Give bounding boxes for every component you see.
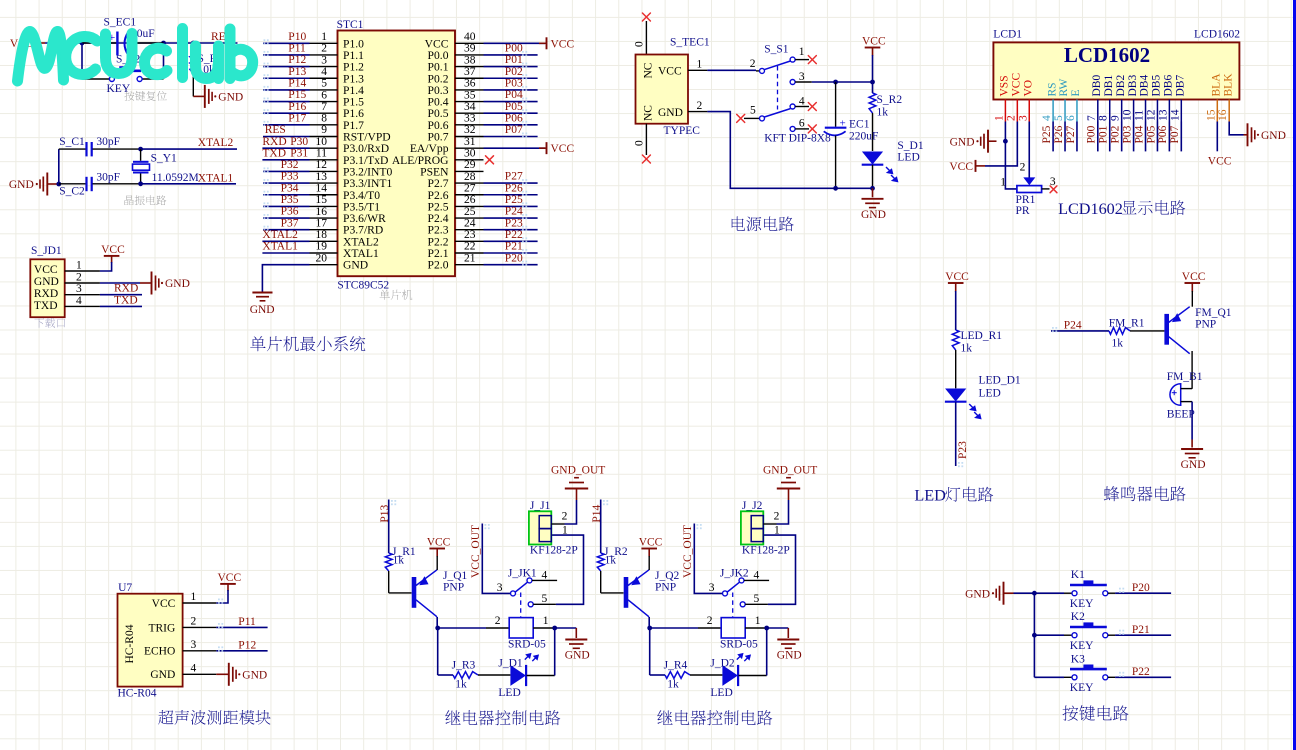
wire XTAL1 (138, 181, 236, 186)
svg-text:BLK: BLK (1222, 73, 1234, 97)
svg-text:36: 36 (464, 78, 476, 90)
net label P02 (LCD) (1109, 125, 1121, 143)
svg-text:VO: VO (1022, 80, 1034, 97)
wire LCD pin16 BLK to GND (1229, 122, 1243, 135)
crystal S_Y1 11.0592M (133, 149, 199, 184)
svg-text:FM_B1: FM_B1 (1167, 371, 1203, 383)
svg-text:LED: LED (897, 152, 919, 164)
wire LCD pin3 VO to potentiometer (1028, 122, 1030, 178)
svg-text:10: 10 (1122, 109, 1134, 121)
svg-text:P02: P02 (1109, 125, 1121, 143)
net label P22 (keys) (1132, 666, 1150, 678)
svg-text:1: 1 (799, 46, 805, 58)
net label RES (pin9) (265, 124, 286, 136)
wire LCD pin14 (1180, 122, 1182, 152)
svg-text:6: 6 (1065, 115, 1077, 121)
net label P12 (288, 54, 306, 66)
wire net P17 (263, 121, 310, 126)
net label VCC (LCD pin15) (1208, 156, 1232, 168)
wire GND pin20 (262, 265, 309, 292)
svg-text:S_C1: S_C1 (59, 136, 85, 148)
net label XTAL1 (pin19) (262, 241, 298, 253)
svg-text:J_R3: J_R3 (452, 660, 476, 672)
svg-text:39: 39 (464, 43, 476, 55)
wire net P14 (263, 86, 310, 91)
svg-text:SRD-05: SRD-05 (720, 638, 758, 650)
svg-text:P22: P22 (505, 229, 523, 241)
wire net P10 (263, 39, 310, 44)
wire collector J_Q2 to coil (647, 617, 698, 630)
svg-text:9: 9 (1110, 115, 1122, 121)
node crystal gnd junction (56, 182, 61, 187)
svg-text:P13: P13 (288, 66, 306, 78)
svg-text:P00: P00 (1086, 125, 1098, 143)
wire net P37 (263, 226, 310, 231)
svg-text:GND: GND (165, 278, 190, 290)
wire reset rail (45, 42, 238, 44)
svg-text:12: 12 (1145, 109, 1157, 121)
svg-text:LCD1: LCD1 (993, 29, 1022, 41)
pin 26 (right, P2.5) (455, 194, 484, 206)
wire switch pin5 to J_J2 pin1 (763, 535, 795, 604)
sheet border (right edge) (1293, 0, 1296, 750)
svg-text:P00: P00 (505, 43, 523, 55)
capacitor S_C1 30pF (59, 136, 141, 157)
svg-text:7: 7 (1086, 115, 1098, 121)
svg-text:5: 5 (750, 104, 756, 116)
net label RXD P30 (262, 136, 308, 148)
svg-text:K1: K1 (1071, 569, 1085, 581)
net label P01 (LCD) (1098, 125, 1110, 143)
connector S_TEC1 TYPEC (636, 37, 710, 137)
svg-text:22: 22 (464, 241, 476, 253)
svg-text:TYPEC: TYPEC (664, 125, 701, 137)
pin 30 (right, ALE/PROG) (455, 148, 484, 160)
net label XTAL2 (pin18) (262, 229, 298, 241)
svg-text:1: 1 (191, 591, 197, 603)
svg-text:27: 27 (464, 182, 476, 194)
svg-text:P25: P25 (505, 194, 523, 206)
svg-text:TXD: TXD (114, 294, 138, 306)
pin 36 (right, P0.3) (455, 78, 484, 90)
pin 21 (right, P2.0) (455, 252, 484, 264)
wire net P15 (263, 98, 310, 103)
wire base lead J_Q1 (389, 592, 412, 594)
pin 28 (right, P2.7) (455, 171, 484, 183)
capacitor S_EC1 10uF (82, 17, 164, 56)
wire TXD (100, 305, 142, 307)
svg-text:1k: 1k (393, 555, 405, 567)
svg-text:0: 0 (633, 41, 645, 47)
svg-text:FM_Q1: FM_Q1 (1195, 307, 1232, 319)
svg-text:17: 17 (316, 217, 328, 229)
net label TXD P31 (262, 147, 308, 159)
wire net P27 (484, 179, 538, 184)
ground GND (buzzer) (1181, 440, 1206, 472)
node reset rail junction C (191, 41, 196, 46)
svg-text:15: 15 (1205, 109, 1217, 121)
svg-text:J_JK2: J_JK2 (720, 568, 749, 580)
svg-text:DB0: DB0 (1091, 75, 1103, 97)
power port VCC (download) (101, 244, 125, 263)
svg-text:VCC: VCC (1208, 156, 1232, 168)
pin 13 (left, P3.3/INT1) (310, 171, 338, 183)
svg-text:1: 1 (562, 525, 568, 537)
net label P11 (288, 43, 306, 55)
ground GND (keys) (965, 582, 1013, 605)
svg-text:GND: GND (9, 179, 34, 191)
svg-text:2: 2 (495, 615, 501, 627)
resistor J_R1 1k (385, 546, 416, 593)
svg-text:LCD1602: LCD1602 (1064, 43, 1150, 67)
wire LCD pin7 (1097, 122, 1099, 152)
wire net P05 (484, 109, 538, 114)
svg-text:K3: K3 (1071, 653, 1085, 665)
svg-text:BEEP: BEEP (1167, 409, 1195, 421)
net label VCC_OUT (682, 525, 694, 578)
svg-text:2: 2 (1020, 162, 1026, 174)
title buzzer circuit (1104, 486, 1186, 501)
svg-text:GND_OUT: GND_OUT (763, 465, 817, 477)
svg-text:P07: P07 (1169, 125, 1181, 143)
svg-text:J_J2: J_J2 (742, 500, 763, 512)
comment reset label (124, 91, 166, 101)
svg-text:15: 15 (316, 194, 328, 206)
wire LCD pin5 (1064, 122, 1066, 152)
pin 12 (left, P3.2/INT0) (310, 159, 338, 171)
net label P16 (288, 101, 306, 113)
title MCU minimal system (250, 336, 365, 351)
svg-text:P16: P16 (288, 101, 306, 113)
power port VCC (ultrasonic) (218, 572, 242, 591)
wire crystal left vertical (58, 149, 60, 184)
svg-text:2: 2 (76, 272, 82, 284)
pin 7 (left, P1.6) (310, 101, 338, 113)
wire K3 to P22 (1108, 672, 1171, 678)
svg-text:P03: P03 (505, 78, 523, 90)
net label P11 (238, 616, 256, 628)
svg-text:2: 2 (321, 43, 327, 55)
ground GND (crystal) (9, 173, 59, 196)
svg-text:21: 21 (464, 252, 476, 264)
svg-text:K2: K2 (1071, 611, 1085, 623)
ground GND (LCD left) (950, 130, 997, 153)
svg-text:STC1: STC1 (337, 19, 364, 31)
wire net P26 (484, 191, 538, 196)
svg-text:P12: P12 (288, 54, 306, 66)
svg-text:11: 11 (316, 148, 327, 160)
svg-text:P04: P04 (505, 89, 523, 101)
net label P02 (505, 66, 523, 78)
svg-text:P06: P06 (505, 112, 523, 124)
svg-text:7: 7 (321, 101, 327, 113)
svg-text:DB5: DB5 (1151, 75, 1163, 97)
net label P27 (505, 171, 523, 183)
net label P26 (505, 182, 523, 194)
svg-text:DB4: DB4 (1139, 75, 1151, 97)
pin 14 LCD (DB7) (1169, 100, 1181, 122)
logo MCUclub (18, 29, 253, 82)
net label P25 (LCD) (1041, 125, 1053, 143)
svg-text:GND_OUT: GND_OUT (551, 465, 605, 477)
svg-text:P02: P02 (505, 66, 523, 78)
svg-text:S_D1: S_D1 (897, 140, 923, 152)
pin 32 (right, P0.7) (455, 124, 484, 136)
wire LCD pin1 to PR1 pin1 (1005, 141, 1017, 189)
wire net RXD (pin10) (262, 147, 309, 149)
svg-text:TXD: TXD (34, 300, 58, 312)
pin 2 (left, P1.1) (310, 43, 338, 55)
svg-text:1: 1 (543, 615, 549, 627)
wire net TXD (pin11) (262, 159, 309, 161)
svg-text:8: 8 (321, 113, 327, 125)
net label P13 (379, 504, 391, 522)
pin 3 LCD (VO) (1017, 100, 1029, 122)
svg-text:STC89C52: STC89C52 (337, 279, 389, 291)
pin 4 LCD (RS) (1041, 100, 1053, 122)
wire net P00 (484, 51, 538, 56)
wire net XTAL1 (pin19) (262, 252, 309, 254)
pin 25 (right, P2.4) (455, 206, 484, 218)
svg-text:FM_R1: FM_R1 (1109, 318, 1145, 330)
svg-text:P34: P34 (281, 182, 299, 194)
net label P33 (281, 171, 299, 183)
svg-text:6: 6 (799, 118, 805, 130)
net label P36 (281, 206, 299, 218)
wire collector J_Q1 to coil (435, 617, 486, 630)
svg-text:13: 13 (316, 171, 328, 183)
svg-text:1k: 1k (455, 679, 467, 691)
comment MCU label (380, 290, 413, 300)
power port VCC (pin40) (539, 37, 574, 50)
svg-text:35: 35 (464, 89, 476, 101)
svg-text:4: 4 (799, 95, 805, 107)
wire VCC_OUT to switch pin3 (694, 524, 722, 594)
wire flyback branch (438, 628, 453, 675)
wire LCD pin4 (1052, 122, 1054, 152)
pin 22 (right, P2.1) (455, 241, 484, 253)
svg-text:2: 2 (697, 100, 703, 112)
svg-text:24: 24 (464, 217, 476, 229)
svg-text:6: 6 (321, 89, 327, 101)
resistor S_R1 10k (190, 43, 223, 96)
svg-text:28: 28 (464, 171, 476, 183)
svg-text:P35: P35 (281, 194, 299, 206)
wire net P21 (484, 249, 538, 254)
svg-text:30pF: 30pF (96, 136, 120, 148)
net label P03 (LCD) (1121, 125, 1133, 143)
svg-text:J_R4: J_R4 (664, 660, 688, 672)
wire TYPEC pin2 to ground rail (707, 112, 874, 191)
comment crystal label (125, 195, 167, 205)
ground GND (LCD right) (1244, 123, 1286, 146)
svg-text:DB2: DB2 (1115, 75, 1127, 97)
switch S_S1 KFT DIP-8X8 (744, 44, 831, 145)
svg-text:VCC: VCC (218, 572, 242, 584)
net label P21 (505, 241, 523, 253)
wire LCD pin10 (1133, 122, 1135, 152)
wire LCD pin6 (1076, 122, 1078, 152)
net label P22 (505, 229, 523, 241)
resistor J_R2 1k (597, 546, 628, 593)
wire LCD pin15 BLA to VCC (1216, 122, 1218, 152)
svg-text:VCC: VCC (862, 36, 886, 48)
wire net P12 (263, 63, 310, 68)
wire LCD pin13 (1168, 122, 1170, 152)
net label P20 (505, 252, 523, 264)
net label P24 (1064, 319, 1082, 331)
svg-text:VSS: VSS (999, 75, 1011, 96)
pin 15 LCD (BLA) (1205, 100, 1217, 122)
svg-text:14: 14 (1169, 109, 1181, 121)
pin 10 (left, P3.0/RxD) (310, 136, 338, 148)
title relay control circuit (657, 710, 772, 725)
pin 6 LCD (E) (1065, 100, 1077, 122)
svg-text:J_JK1: J_JK1 (508, 568, 537, 580)
net label P05 (LCD) (1145, 125, 1157, 143)
title ultrasonic module (158, 710, 270, 725)
LED J_D1 (498, 657, 526, 699)
net label P10 (288, 31, 306, 43)
pin 13 LCD (DB6) (1157, 100, 1169, 122)
power port VCC (reset rail) (10, 37, 45, 50)
ground GND (J_JK1) (565, 628, 590, 662)
node coil pin1 junction (764, 626, 769, 631)
wire net P06 (484, 121, 538, 126)
wire VCC_OUT to switch pin3 (482, 524, 510, 594)
wire net P20 (484, 261, 538, 266)
resistor FM_R1 1k (1109, 318, 1165, 350)
LED S_D1 (862, 140, 924, 188)
pin 14 (left, P3.4/T0) (310, 182, 338, 194)
capacitor S_C2 30pF (59, 172, 141, 198)
wire net XTAL2 (pin18) (262, 240, 309, 242)
svg-text:KEY: KEY (1070, 682, 1094, 694)
svg-text:EC1: EC1 (849, 119, 870, 131)
wire LCD pin11 (1145, 122, 1147, 152)
resistor LED_R1 1k (952, 330, 1002, 388)
svg-text:25: 25 (464, 206, 476, 218)
svg-text:E: E (1070, 89, 1082, 96)
svg-text:P23: P23 (505, 217, 523, 229)
net label P24 (505, 206, 523, 218)
wire RXD (100, 294, 142, 296)
wire P14 input (601, 500, 609, 554)
pin 16 LCD (BLK) (1217, 100, 1229, 122)
svg-text:XTAL1: XTAL1 (198, 173, 234, 185)
svg-text:2: 2 (707, 615, 713, 627)
svg-text:RXD: RXD (114, 283, 138, 295)
svg-text:P26: P26 (1053, 125, 1065, 143)
net label P05 (505, 101, 523, 113)
svg-text:31: 31 (464, 136, 476, 148)
svg-text:P11: P11 (238, 616, 256, 628)
svg-text:P22: P22 (1132, 666, 1150, 678)
pin 12 LCD (DB5) (1145, 100, 1157, 122)
node reset rail junction B (161, 41, 166, 46)
ground GND (download) (140, 272, 190, 295)
svg-text:1: 1 (1000, 177, 1006, 189)
LED LED_D1 (945, 375, 1021, 419)
svg-text:P26: P26 (505, 182, 523, 194)
svg-text:P32: P32 (281, 159, 299, 171)
svg-text:2: 2 (562, 511, 568, 523)
svg-text:GND: GND (658, 107, 683, 119)
svg-text:J_J1: J_J1 (530, 500, 551, 512)
net label P23 (505, 217, 523, 229)
switch K3 KEY (1034, 653, 1107, 694)
power port VCC (J_Q2) (639, 537, 663, 570)
net label P07 (LCD) (1169, 125, 1181, 143)
svg-text:DB6: DB6 (1163, 75, 1175, 97)
wire net P25 (484, 202, 538, 207)
net label P37 (281, 217, 299, 229)
svg-text:P01: P01 (1098, 125, 1110, 143)
pin 5 LCD (RW) (1053, 100, 1065, 122)
svg-text:P37: P37 (281, 217, 299, 229)
connector S_JD1 (30, 245, 100, 317)
svg-text:12: 12 (316, 159, 328, 171)
svg-text:10: 10 (316, 136, 328, 148)
pin 2 LCD (VCC) (1005, 100, 1017, 122)
svg-text:18: 18 (316, 229, 328, 241)
pin 1 LCD (VSS) (993, 100, 1005, 122)
svg-text:KEY: KEY (1070, 598, 1094, 610)
svg-text:P05: P05 (505, 101, 523, 113)
wire LCD pin12 (1156, 122, 1158, 152)
svg-text:13: 13 (1157, 109, 1169, 121)
net label RXD (114, 283, 138, 295)
svg-text:P04: P04 (1133, 125, 1145, 143)
title LCD circuit (1058, 200, 1185, 218)
resistor J_R3 1k (452, 660, 511, 691)
net label P01 (505, 54, 523, 66)
wire FM_Q1 collector to buzzer (1191, 351, 1193, 389)
svg-text:S_R2: S_R2 (877, 94, 903, 106)
svg-text:P10: P10 (288, 31, 306, 43)
wire TYPEC bottom stub (633, 124, 646, 155)
wire ECHO P12 (216, 646, 267, 651)
no-ERC marker S_S1 pin4 (808, 103, 816, 111)
wire base lead J_Q2 (601, 592, 624, 594)
title LED circuit (914, 487, 993, 505)
svg-text:DB7: DB7 (1175, 75, 1187, 97)
svg-text:KFT DIP-8X8: KFT DIP-8X8 (764, 132, 831, 144)
pin 34 (right, P0.5) (455, 101, 484, 113)
pin 29 (right, PSEN) (455, 159, 484, 171)
svg-text:S_S1: S_S1 (764, 44, 789, 56)
svg-text:ECHO: ECHO (144, 646, 175, 658)
svg-text:2: 2 (774, 511, 780, 523)
wire VCC pin31 (484, 147, 546, 149)
no-ERC marker S_S1 pin1 (808, 56, 816, 64)
svg-text:GND: GND (1261, 130, 1286, 142)
svg-text:P17: P17 (288, 112, 306, 124)
net label P25 (505, 194, 523, 206)
svg-text:2: 2 (1005, 115, 1017, 121)
no-ERC marker TYPEC top (642, 13, 650, 21)
svg-text:VCC: VCC (551, 38, 575, 50)
net label TXD (114, 294, 138, 306)
pin 9 LCD (DB2) (1110, 100, 1122, 122)
svg-text:VCC_OUT: VCC_OUT (470, 525, 482, 578)
pin 11 (left, P3.1/TxD) (310, 148, 338, 160)
potentiometer PR1 PR (1000, 162, 1056, 218)
pin 8 (left, P1.7) (310, 113, 338, 125)
svg-text:0: 0 (633, 140, 645, 146)
svg-text:P11: P11 (288, 43, 306, 55)
svg-text:DB3: DB3 (1127, 75, 1139, 97)
